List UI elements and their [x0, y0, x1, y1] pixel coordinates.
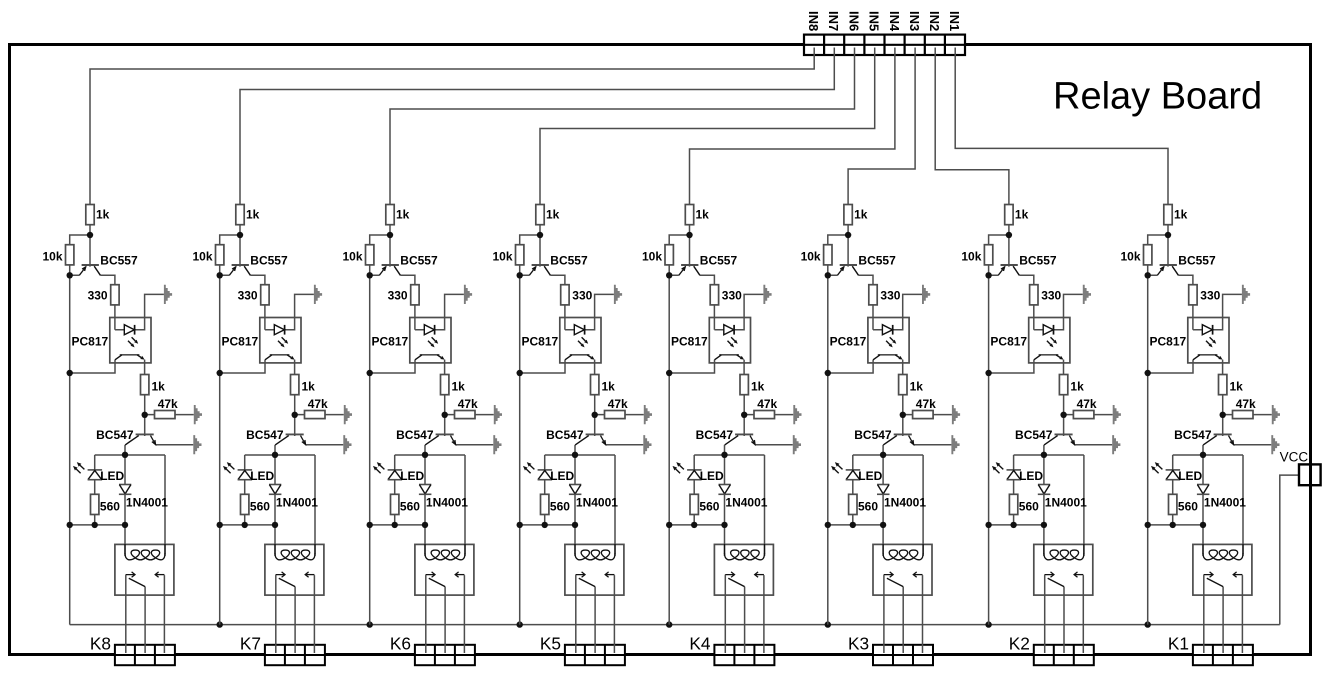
svg-text:Relay Board: Relay Board	[1053, 75, 1262, 117]
svg-text:K5: K5	[540, 634, 561, 654]
svg-text:330: 330	[1041, 288, 1061, 302]
svg-text:IN6: IN6	[846, 11, 861, 31]
svg-text:330: 330	[1200, 288, 1220, 302]
svg-text:K7: K7	[240, 634, 261, 654]
svg-text:K6: K6	[390, 634, 411, 654]
svg-text:IN5: IN5	[867, 11, 882, 31]
svg-text:IN3: IN3	[907, 11, 922, 31]
svg-text:K3: K3	[848, 634, 869, 654]
svg-text:IN2: IN2	[927, 11, 942, 31]
svg-text:330: 330	[572, 288, 592, 302]
svg-text:330: 330	[880, 288, 900, 302]
svg-text:IN7: IN7	[826, 11, 841, 31]
svg-text:330: 330	[388, 288, 408, 302]
svg-text:K2: K2	[1009, 634, 1030, 654]
svg-text:IN4: IN4	[887, 11, 902, 32]
svg-text:IN1: IN1	[947, 11, 962, 31]
svg-text:K1: K1	[1168, 634, 1189, 654]
svg-text:330: 330	[238, 288, 258, 302]
svg-text:330: 330	[88, 288, 108, 302]
svg-text:K4: K4	[689, 634, 711, 654]
svg-text:K8: K8	[90, 634, 111, 654]
svg-text:330: 330	[722, 288, 742, 302]
svg-text:IN8: IN8	[806, 11, 821, 31]
svg-text:VCC: VCC	[1280, 450, 1309, 465]
